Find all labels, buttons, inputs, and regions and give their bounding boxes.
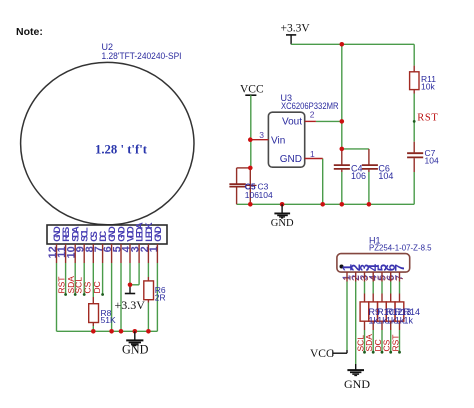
svg-text:Note:: Note: xyxy=(16,26,43,38)
svg-text:1k: 1k xyxy=(404,315,414,325)
svg-text:Vin: Vin xyxy=(271,135,285,146)
svg-text:106: 106 xyxy=(351,171,366,181)
svg-text:GND: GND xyxy=(280,154,302,165)
svg-text:GND: GND xyxy=(271,218,294,229)
svg-text:GND: GND xyxy=(153,226,164,242)
svg-text:1.28'TFT-240240-SPI: 1.28'TFT-240240-SPI xyxy=(102,51,182,61)
svg-text:104: 104 xyxy=(425,156,439,166)
svg-text:DC: DC xyxy=(92,281,102,293)
svg-text:3: 3 xyxy=(259,130,264,140)
svg-text:10k: 10k xyxy=(421,82,435,92)
svg-text:+3.3V: +3.3V xyxy=(281,23,311,35)
svg-text:2: 2 xyxy=(310,110,315,120)
svg-text:104: 104 xyxy=(259,190,273,200)
svg-text:GND: GND xyxy=(344,377,370,391)
svg-text:VCC: VCC xyxy=(310,348,334,360)
svg-text:106: 106 xyxy=(245,190,259,200)
svg-text:104: 104 xyxy=(378,171,393,181)
svg-text:7: 7 xyxy=(392,264,407,271)
svg-text:GND: GND xyxy=(122,343,149,357)
svg-text:1: 1 xyxy=(310,149,315,159)
svg-text:51K: 51K xyxy=(101,315,116,325)
svg-text:RST: RST xyxy=(391,335,401,352)
svg-text:RST: RST xyxy=(417,113,438,124)
svg-text:Vout: Vout xyxy=(282,117,302,128)
svg-text:2R: 2R xyxy=(155,292,166,302)
svg-text:1.28 ' t'f't: 1.28 ' t'f't xyxy=(95,142,148,157)
svg-text:+3.3V: +3.3V xyxy=(115,298,146,312)
svg-text:VCC: VCC xyxy=(240,83,264,95)
svg-text:PZ254-1-07-Z-8.5: PZ254-1-07-Z-8.5 xyxy=(369,242,432,252)
